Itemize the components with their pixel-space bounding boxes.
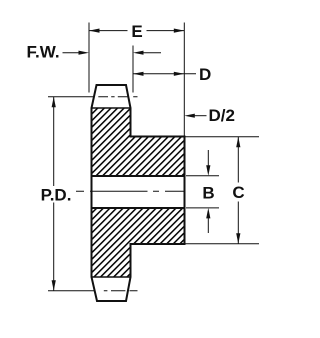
hatched hub lower region [131, 208, 185, 244]
pitch centerline bottom (dash-dot across tooth) [104, 290, 138, 292]
arrowhead C bottom [236, 233, 240, 244]
dimension E line [89, 30, 184, 32]
hatched hub upper region [131, 137, 185, 177]
hatched plate upper region [92, 108, 131, 176]
arrowhead E left [89, 29, 100, 33]
arrowhead B pointing up [206, 208, 210, 219]
top tooth root line [92, 107, 131, 109]
dimension C upper segment [237, 137, 239, 183]
svg-text:B: B [202, 184, 214, 203]
F.W. leader line [63, 52, 83, 54]
arrowhead D right [174, 72, 185, 76]
dimension B upper segment [207, 150, 209, 168]
hatched plate lower region [92, 208, 131, 277]
extension line hub right face (x=184.3) [183, 23, 185, 137]
bore centerline [76, 190, 184, 192]
svg-text:F.W.: F.W. [27, 42, 60, 61]
arrowhead E right [174, 29, 185, 33]
dimension C lower segment [237, 202, 239, 244]
arrowhead P.D. top [52, 97, 56, 108]
arrowhead D left [133, 72, 144, 76]
arrowhead C top [236, 137, 240, 148]
D/2 leader tail [192, 115, 207, 117]
extension line left (x=89) [88, 23, 90, 93]
arrowhead B pointing down [206, 165, 210, 176]
F.W. opposing tail line [140, 52, 161, 54]
svg-text:D/2: D/2 [209, 106, 235, 125]
dimension P.D. line upper segment [53, 97, 55, 186]
arrowhead F.W. pointing left [133, 51, 144, 55]
pitch centerline top (dash-dot across tooth) [98, 96, 137, 98]
svg-text:D: D [199, 65, 211, 84]
bore bottom line [92, 207, 185, 209]
sprocket body outline [92, 85, 185, 301]
extension line plate right face (x=133) [132, 46, 134, 93]
bottom tooth root line [92, 276, 131, 278]
svg-text:P.D.: P.D. [41, 185, 72, 204]
dimension D line [133, 73, 196, 75]
dimension P.D. line lower segment [53, 203, 55, 291]
arrowhead P.D. bottom [52, 280, 56, 291]
svg-text:C: C [232, 183, 244, 202]
arrowhead D/2 pointing left [184, 114, 195, 118]
svg-text:E: E [131, 22, 142, 41]
pitch line extension bottom [48, 290, 95, 292]
bore top line [92, 175, 185, 177]
arrowhead F.W. pointing right [79, 51, 90, 55]
hub extension lines right [185, 137, 260, 244]
pitch line extension top [48, 96, 93, 98]
dimension B lower segment [207, 216, 209, 233]
bore extension lines right [186, 176, 219, 208]
